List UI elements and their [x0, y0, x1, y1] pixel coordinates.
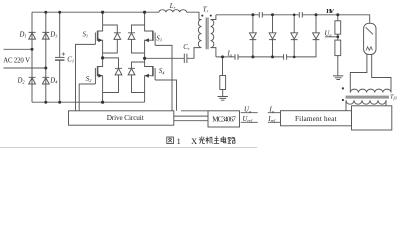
svg-text:Ia: Ia	[227, 50, 232, 57]
svg-text:Uref: Uref	[243, 116, 253, 123]
svg-text:Ia: Ia	[269, 107, 274, 114]
svg-text:Filament heat: Filament heat	[295, 115, 337, 123]
svg-text:Tfil: Tfil	[390, 94, 397, 101]
svg-text:D4: D4	[49, 77, 58, 84]
svg-text:MC34067: MC34067	[212, 116, 236, 124]
svg-text:S2: S2	[86, 76, 92, 83]
svg-text:Ua: Ua	[244, 107, 251, 114]
svg-text:1: 1	[177, 137, 181, 146]
svg-text:D3: D3	[49, 31, 57, 38]
svg-text:Iref: Iref	[267, 116, 276, 123]
svg-text:AC 220 V: AC 220 V	[3, 57, 30, 64]
svg-text:D2: D2	[17, 77, 26, 84]
svg-text:Lr: Lr	[169, 3, 176, 10]
svg-text:D1: D1	[19, 31, 27, 38]
svg-text:C1: C1	[67, 56, 74, 63]
svg-text:X: X	[191, 137, 197, 146]
svg-text:Tr: Tr	[203, 7, 209, 14]
svg-text:S1: S1	[83, 32, 89, 39]
svg-text:HV: HV	[326, 8, 334, 15]
svg-text:S4: S4	[159, 68, 165, 75]
svg-text:Cr: Cr	[183, 44, 190, 51]
svg-text:S3: S3	[156, 35, 162, 42]
svg-text:Drive Circuit: Drive Circuit	[107, 114, 144, 122]
svg-text:Ua: Ua	[325, 30, 332, 37]
